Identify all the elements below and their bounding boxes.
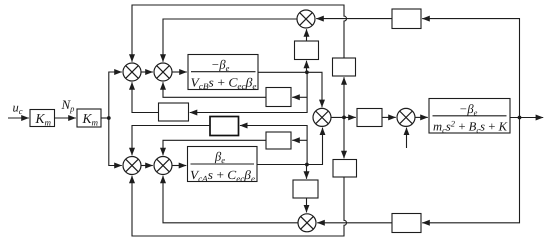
wire: M3 output right into box5	[331, 116, 356, 118]
wire: M1 output left, down into S2 top	[163, 19, 297, 62]
coefficient box7 (bottom right)	[392, 214, 421, 233]
coefficient box5 (after M3)	[357, 109, 382, 127]
wire: box MU up over hop, left, down into S1 top	[132, 5, 347, 62]
node B junction dot on GB output	[305, 70, 309, 74]
wire: Km2 to node A	[101, 117, 109, 119]
coefficient box ML	[333, 160, 357, 178]
wire: bus from node C up, left into box2	[240, 126, 307, 165]
multiplier M1 (top)	[297, 10, 315, 28]
wire: box T2 down into multiplier M2 top	[306, 198, 308, 212]
wire: box5 output into multiplier M4 left	[382, 116, 396, 118]
coefficient box6 (top right)	[392, 9, 421, 29]
summing junction S2	[154, 63, 172, 81]
wire: external input up into M4 bottom	[406, 128, 408, 148]
node D junction dot on M3 output	[342, 116, 346, 120]
wire: node A down into summing junction S3	[109, 118, 122, 166]
wire: input u_c into Km1	[8, 117, 29, 119]
multiplier M2 (bottom)	[298, 214, 316, 232]
gain block Km1	[30, 110, 55, 128]
wire: node D up into box MU	[343, 77, 345, 117]
coefficient box3	[266, 88, 291, 107]
wire: node B up into box T1	[306, 61, 308, 73]
wire: node E down, left into box7	[422, 118, 519, 223]
wire: box7 output left into M2 right	[317, 222, 392, 224]
wire: M2 output left, up into S4 bottom	[163, 176, 298, 223]
wire: node C down into box T2	[306, 165, 308, 179]
wire: box ML down over hop, left along bottom, up into S3 bottom	[132, 176, 347, 236]
wire: box4 output left, down into S4 top	[163, 140, 266, 155]
coefficient box MU	[333, 58, 356, 76]
wire: node A up into summing junction S1	[109, 72, 122, 118]
transfer block GB: -beta_e / (VcB s + Cec beta_e)	[188, 55, 258, 92]
summing junction S3	[123, 157, 141, 175]
coefficient box2	[210, 117, 239, 136]
wire: node D down into box ML	[343, 117, 345, 158]
wire: box3 output left, up into S2 bottom	[163, 82, 266, 97]
wire: bus branch left into box4	[292, 139, 307, 141]
multiplier M4	[397, 108, 415, 126]
wire: box2 output left, down into S3 top	[132, 126, 210, 156]
wire: box1 output left, up into S1 bottom	[132, 82, 159, 112]
wire: bus from node B down, left into box1	[190, 72, 307, 112]
transfer block GA: beta_e / (VcA s + Cec beta_e)	[188, 147, 258, 184]
multiplier M3 (centre)	[313, 108, 331, 126]
wire: block GM output to the right edge	[510, 117, 543, 119]
wire: box6 output left into M1 right	[316, 18, 392, 20]
wire: node E up, left into box6	[422, 19, 519, 118]
coefficient box T2	[293, 180, 318, 198]
wire: block GB output right, to multiplier M3 top	[258, 72, 322, 107]
gain block Km2	[77, 109, 101, 128]
transfer block GM: -beta_e / (mc s^2 + Bc s + K)	[429, 99, 510, 136]
wire: box T1 up into multiplier M1 bottom	[306, 29, 308, 41]
node C junction dot on GA output	[305, 163, 309, 167]
coefficient box T1	[295, 41, 319, 60]
wire: S3 to S4	[141, 165, 153, 167]
wire: Km1 to Km2	[55, 117, 76, 119]
wire: bus branch left into box3	[292, 96, 307, 98]
summing junction S1	[123, 63, 141, 81]
wire: block GA output right, up into multiplier M3 bottom	[257, 128, 323, 165]
node A junction dot	[107, 116, 111, 120]
wire: M4 output into block GM	[415, 116, 428, 118]
coefficient box4	[266, 132, 291, 149]
summing junction S4	[154, 157, 172, 175]
wire: S4 to block GA	[172, 165, 186, 167]
coefficient box1	[159, 103, 189, 121]
node E junction dot on output	[518, 116, 522, 120]
wire: S1 to S2	[141, 71, 153, 73]
wire: S2 to block GB	[172, 71, 187, 73]
